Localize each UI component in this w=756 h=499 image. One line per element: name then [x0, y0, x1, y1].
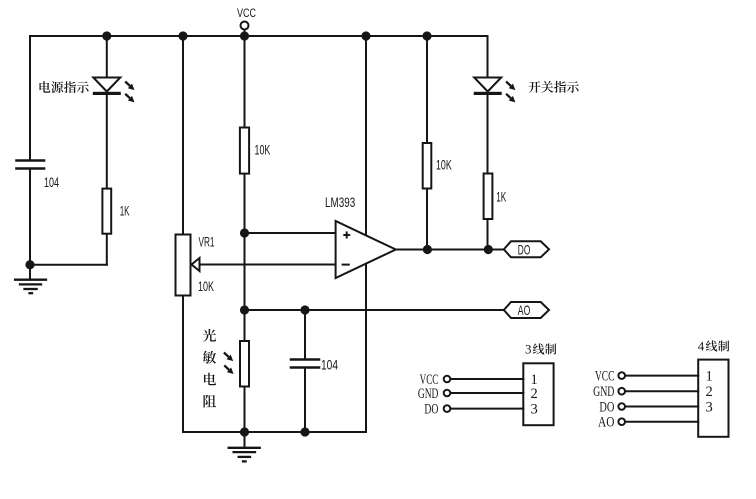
svg-text:DO: DO — [518, 243, 531, 258]
svg-text:1K: 1K — [120, 203, 130, 218]
svg-text:VR1: VR1 — [199, 235, 215, 250]
svg-text:VCC: VCC — [237, 6, 256, 20]
svg-text:104: 104 — [321, 358, 338, 373]
svg-text:3: 3 — [525, 342, 532, 357]
svg-text:10K: 10K — [255, 143, 271, 158]
svg-text:10K: 10K — [198, 279, 214, 294]
svg-text:GND: GND — [418, 386, 439, 402]
svg-text:DO: DO — [599, 399, 614, 415]
svg-text:AO: AO — [518, 303, 531, 318]
svg-text:VCC: VCC — [595, 368, 614, 384]
svg-text:4: 4 — [698, 339, 705, 354]
svg-text:LM393: LM393 — [325, 195, 355, 210]
svg-text:10K: 10K — [436, 158, 452, 173]
svg-text:104: 104 — [44, 175, 59, 190]
svg-text:3: 3 — [706, 399, 713, 415]
svg-text:3: 3 — [531, 401, 538, 417]
svg-text:1K: 1K — [496, 189, 506, 204]
svg-text:GND: GND — [593, 384, 614, 400]
svg-text:1: 1 — [706, 368, 713, 384]
svg-text:DO: DO — [424, 401, 438, 417]
svg-text:2: 2 — [706, 384, 713, 400]
svg-text:AO: AO — [598, 415, 614, 431]
svg-text:2: 2 — [531, 386, 538, 402]
